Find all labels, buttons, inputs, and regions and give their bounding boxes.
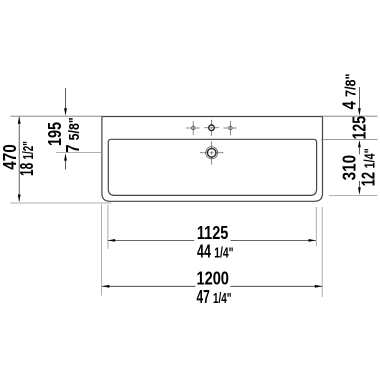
dimension 310 lower stem <box>358 181 360 188</box>
tap hole right circle <box>229 126 233 130</box>
extension line vertical x322 <box>321 207 323 297</box>
extension line bottom-left y203 <box>10 202 111 204</box>
tap hole left circle <box>191 126 195 130</box>
dimension 125 upper arrow <box>358 108 361 116</box>
dimension 1200 line right segment <box>230 285 322 287</box>
tap hole center ring <box>209 125 215 131</box>
extension line right y195 <box>329 194 378 196</box>
svg-text:195: 195 <box>45 122 65 146</box>
extension line vertical x101 <box>101 205 103 296</box>
dimension 195 lower stem <box>65 160 67 170</box>
svg-text:125: 125 <box>349 116 369 140</box>
dimension 195 upper stem <box>65 88 67 109</box>
dimension 1200 arrow left <box>102 285 110 288</box>
extension line vertical x108 <box>107 205 109 250</box>
dimension 195 lower arrow <box>64 153 67 161</box>
dimension 125 upper stem <box>358 87 360 109</box>
extension line top-right y116 <box>323 115 378 117</box>
svg-text:1125: 1125 <box>197 223 229 243</box>
dimension 1125 arrow left <box>108 239 116 242</box>
svg-text:44 1/4": 44 1/4" <box>197 242 234 262</box>
tap hole left crosshair <box>186 121 199 135</box>
extension line vertical x316 <box>315 207 317 246</box>
drain outer circle <box>206 147 218 159</box>
extension line drain center y152 <box>56 152 102 154</box>
svg-text:18 1/2": 18 1/2" <box>17 141 37 176</box>
dimension 125-310 shared arrow up <box>358 140 361 148</box>
svg-text:47 1/4": 47 1/4" <box>197 287 232 307</box>
dimension 1200 arrow right <box>315 285 323 288</box>
dimension 195 upper arrow <box>64 108 67 116</box>
extension line top-left y116 <box>11 115 102 117</box>
drain crosshair <box>200 141 224 165</box>
dimension 470 arrow up <box>18 116 21 124</box>
dimension 470 arrow down <box>18 195 21 203</box>
svg-text:7 5/8": 7 5/8" <box>63 117 83 153</box>
dimension 1200 line left segment <box>102 285 196 287</box>
tap hole right crosshair <box>223 121 236 135</box>
dimension 1125 line right segment <box>231 239 316 241</box>
dimension 470 line <box>18 117 20 201</box>
inner basin rim <box>108 139 316 195</box>
svg-text:4 7/8": 4 7/8" <box>340 74 360 110</box>
extension line right y139 <box>321 138 378 140</box>
dimension 125-310 shared stem <box>358 147 360 154</box>
dimension 1125 line left segment <box>108 239 194 241</box>
dimension 310 lower arrow <box>358 187 361 195</box>
outer basin outline <box>102 117 323 202</box>
svg-text:12 1/4": 12 1/4" <box>358 148 378 186</box>
svg-text:310: 310 <box>340 155 360 181</box>
drain inner circle <box>207 149 216 158</box>
svg-text:1200: 1200 <box>196 269 229 289</box>
tap hole center crosshair <box>204 120 219 136</box>
dimension 1125 arrow right <box>309 239 317 242</box>
